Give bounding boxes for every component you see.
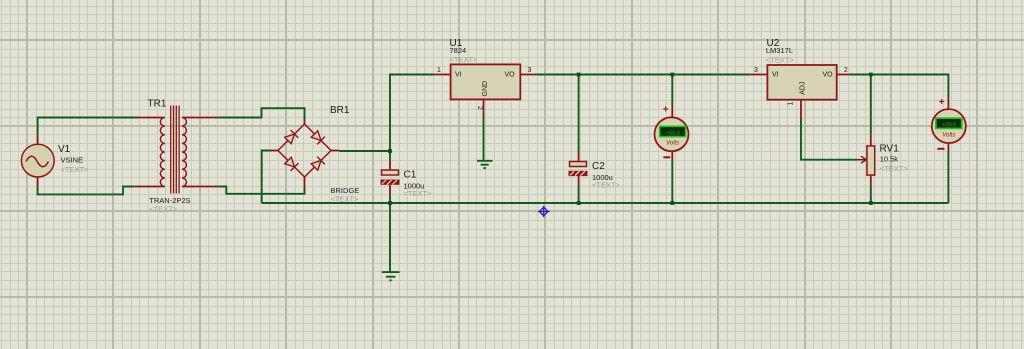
bridge rectifier BR1 bbox=[278, 124, 331, 177]
transformer TR1 bbox=[160, 106, 186, 194]
pin voltmeter1 bottom bbox=[671, 151, 673, 160]
pin C1 bottom bbox=[389, 185, 391, 194]
pin C2 bottom bbox=[578, 176, 580, 186]
svg-text:TR1: TR1 bbox=[148, 99, 167, 110]
svg-text:VSINE: VSINE bbox=[61, 156, 84, 165]
svg-text:<TEXT>: <TEXT> bbox=[61, 165, 90, 174]
wire C1 top bbox=[389, 151, 391, 161]
label VM1 minus bbox=[663, 156, 670, 158]
svg-text:3: 3 bbox=[754, 67, 758, 74]
svg-text:VI: VI bbox=[455, 72, 462, 79]
svg-text:+: + bbox=[939, 97, 945, 108]
svg-text:LM317L: LM317L bbox=[766, 46, 793, 55]
diode BR1 bottom-right bbox=[311, 157, 325, 171]
junction node RV1 bottom rail bbox=[869, 201, 873, 205]
svg-text:+88.8: +88.8 bbox=[942, 122, 957, 129]
junction node C1 bottom rail bbox=[388, 201, 392, 205]
wire C2 bottom to rail bbox=[578, 186, 580, 204]
pin RV1 top bbox=[870, 135, 872, 146]
pin V1 top bbox=[37, 134, 39, 144]
voltmeter VM2 bbox=[932, 109, 966, 143]
wire BR1 left down to ground rail bbox=[262, 151, 272, 204]
pin V1 bottom bbox=[37, 177, 39, 187]
svg-text:BR1: BR1 bbox=[330, 105, 350, 116]
pin U1 VI bbox=[434, 74, 450, 76]
wire ground rail bbox=[262, 202, 949, 204]
pin voltmeter2 bottom bbox=[947, 143, 949, 152]
svg-text:<TEXT>: <TEXT> bbox=[149, 205, 178, 214]
voltmeter VM1 bbox=[655, 117, 689, 151]
regulator U2 bbox=[767, 65, 836, 100]
svg-text:7824: 7824 bbox=[450, 46, 467, 55]
svg-text:<TEXT>: <TEXT> bbox=[880, 164, 909, 173]
svg-text:C2: C2 bbox=[592, 161, 605, 172]
svg-text:+88.8: +88.8 bbox=[666, 130, 681, 137]
pin TR1 primary top bbox=[138, 117, 165, 119]
regulator U1 bbox=[451, 64, 521, 99]
junction node C2 bottom rail bbox=[577, 201, 581, 205]
wire U1 GND bbox=[483, 117, 485, 161]
wire C1 bottom to rail bbox=[389, 194, 391, 203]
diode BR1 top-right bbox=[311, 131, 325, 145]
wire V1 top to TR1 bbox=[38, 118, 138, 135]
wire TR1 secondary bottom to BR1 AC2 bbox=[219, 187, 305, 194]
svg-text:10.5k: 10.5k bbox=[880, 155, 899, 164]
pin RV1 wiper arrow bbox=[858, 156, 867, 163]
wire voltmeter1 top bbox=[671, 75, 673, 106]
pin TR1 secondary top bbox=[182, 117, 219, 119]
source V1 bbox=[21, 144, 54, 177]
svg-text:ADJ: ADJ bbox=[800, 82, 807, 95]
pin voltmeter2 top bbox=[947, 98, 949, 110]
svg-text:VO: VO bbox=[505, 72, 516, 79]
svg-text:3: 3 bbox=[528, 67, 532, 74]
pin C1 top bbox=[389, 161, 391, 171]
pin C2 top bbox=[578, 152, 580, 162]
pin BR1 top bbox=[304, 120, 306, 125]
wire C2 drop bbox=[578, 75, 580, 153]
svg-text:1: 1 bbox=[788, 102, 795, 106]
junction node U1 VO / voltmeter1 bbox=[670, 73, 674, 77]
capacitor C1 bbox=[381, 170, 400, 185]
diode BR1 bottom-left bbox=[285, 157, 299, 171]
pin U1 GND bbox=[483, 99, 485, 116]
pin BR1 right bbox=[331, 150, 339, 152]
svg-text:<TEXT>: <TEXT> bbox=[766, 56, 795, 65]
wire BR1 right to C1 node bbox=[339, 150, 390, 152]
wire voltmeter1 bottom to rail bbox=[671, 160, 673, 203]
pin U2 VO bbox=[837, 74, 850, 76]
pin BR1 bottom bbox=[304, 177, 306, 189]
label VM2 minus bbox=[937, 148, 944, 150]
pin U2 VI bbox=[750, 74, 768, 76]
pin TR1 secondary bottom bbox=[182, 186, 219, 188]
pin U1 VO bbox=[520, 74, 537, 76]
wire V1 bottom to TR1 bbox=[38, 187, 133, 195]
svg-text:V1: V1 bbox=[58, 144, 71, 155]
pin voltmeter1 top bbox=[671, 105, 673, 118]
pin TR1 primary bottom bbox=[133, 186, 165, 188]
junction node voltmeter1 bottom rail bbox=[670, 201, 674, 205]
svg-text:<TEXT>: <TEXT> bbox=[450, 55, 479, 64]
svg-text:VI: VI bbox=[772, 72, 779, 79]
wire C1 node up to U1 VI bbox=[390, 75, 434, 152]
wire TR1 secondary top to BR1 AC1 bbox=[219, 108, 305, 119]
wire U2 VO rail to voltmeter2 bbox=[850, 75, 949, 98]
pin BR1 left bbox=[272, 150, 279, 152]
wire U2 ADJ to RV1 wiper bbox=[801, 119, 858, 160]
pin U2 ADJ bbox=[800, 100, 802, 119]
svg-text:GND: GND bbox=[482, 81, 489, 97]
svg-text:VO: VO bbox=[823, 72, 834, 79]
svg-text:2: 2 bbox=[476, 106, 483, 110]
junction node U2 VO / RV1 bbox=[869, 73, 873, 77]
svg-text:Volts: Volts bbox=[942, 133, 955, 139]
capacitor C2 bbox=[569, 162, 588, 177]
wire U1 VO rail bbox=[537, 74, 750, 76]
svg-text:1: 1 bbox=[437, 67, 441, 74]
wire RV1 bottom to rail bbox=[870, 188, 872, 204]
ground under U1 bbox=[477, 161, 493, 168]
origin marker bbox=[538, 206, 550, 217]
potentiometer RV1 bbox=[867, 146, 875, 175]
svg-text:C1: C1 bbox=[404, 170, 417, 181]
svg-text:RV1: RV1 bbox=[880, 144, 900, 155]
svg-text:<TEXT>: <TEXT> bbox=[331, 195, 360, 204]
junction node C1 top bbox=[388, 149, 392, 153]
pin RV1 bottom bbox=[870, 175, 872, 188]
ground under C1 bbox=[382, 272, 400, 280]
svg-text:+: + bbox=[663, 105, 669, 116]
svg-text:Volts: Volts bbox=[666, 141, 679, 147]
wire RV1 top drop bbox=[870, 75, 872, 135]
svg-text:<TEXT>: <TEXT> bbox=[404, 189, 433, 198]
svg-text:<TEXT>: <TEXT> bbox=[592, 181, 621, 190]
diode BR1 top-left bbox=[285, 130, 299, 144]
junction node U1 VO / C2 bbox=[577, 73, 581, 77]
wire voltmeter2 bottom to rail bbox=[947, 152, 949, 203]
wire rail to ground symbol bbox=[389, 203, 391, 272]
svg-text:2: 2 bbox=[844, 67, 848, 74]
